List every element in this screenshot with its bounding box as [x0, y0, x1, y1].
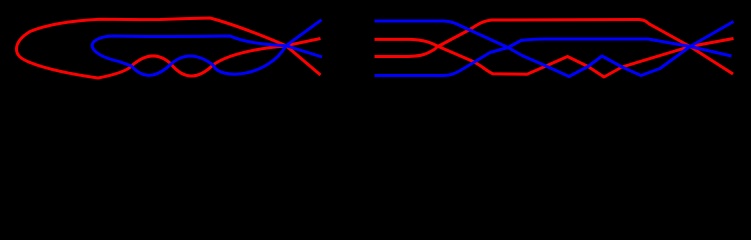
left diagram blue strand (S-hook with twists, through basepoint P1) — [92, 20, 322, 76]
right diagram red strand R-top (starts y=39.4, crosses down, zigzag diamonds, to basepoint P2) — [375, 39, 734, 78]
right diagram blue strand B1 (top blue, descends through diamonds, to basepoint P2) — [375, 21, 734, 77]
right diagram blue strand B2 (bottom blue, rises to upper line, to basepoint P2) — [375, 39, 732, 76]
left diagram red strand (big loop with twists, through basepoint P1) — [17, 18, 321, 78]
right diagram red strand R-bot (starts y=56.5, crosses up to top line, to basepoint P2) — [375, 20, 734, 75]
